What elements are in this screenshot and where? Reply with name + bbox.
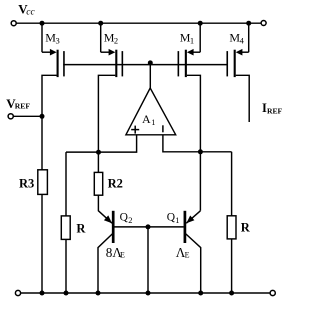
resistor R right body xyxy=(227,216,236,239)
svg-text:1: 1 xyxy=(175,215,179,225)
label R3 xyxy=(19,176,34,190)
transistor M3 xyxy=(42,23,64,116)
svg-text:R2: R2 xyxy=(108,176,123,190)
wire op-amp plus input xyxy=(66,135,137,152)
svg-text:REF: REF xyxy=(15,102,31,111)
Vcc terminal xyxy=(11,21,16,26)
wire op-amp output to gate node xyxy=(149,65,151,88)
label M4 xyxy=(229,30,244,45)
svg-text:1: 1 xyxy=(190,36,194,46)
op-amp A1 xyxy=(126,88,176,135)
transistor Q2 xyxy=(98,211,113,293)
junction dot left R ground xyxy=(64,291,69,296)
node right (M1 drain) dot xyxy=(198,149,203,154)
junction dot M2 source xyxy=(98,21,103,26)
resistor R2 body xyxy=(94,172,102,195)
wire right R bottom xyxy=(231,239,233,293)
ground terminal left xyxy=(15,290,20,295)
label A1 xyxy=(142,112,155,127)
Vcc terminal right xyxy=(261,21,266,26)
junction dot Q2 collector ground xyxy=(96,291,101,296)
resistor R3 body xyxy=(38,170,48,195)
svg-text:R3: R3 xyxy=(19,176,34,190)
label VREF xyxy=(6,96,30,111)
label M3 xyxy=(45,30,59,45)
svg-text:REF: REF xyxy=(267,107,283,116)
transistor M4 xyxy=(227,23,249,122)
label Q2 xyxy=(120,212,133,225)
Q2 emitter arrowhead xyxy=(104,215,112,223)
ground terminal right xyxy=(270,290,275,295)
wire left R bottom xyxy=(65,239,67,293)
VREF terminal xyxy=(8,114,13,119)
resistor R left body xyxy=(61,216,70,240)
wire left R top xyxy=(65,152,67,216)
label Q1 xyxy=(167,212,180,225)
label R left xyxy=(76,221,86,235)
svg-text:R: R xyxy=(76,221,86,235)
svg-text:A: A xyxy=(142,112,151,126)
wire R3 top (VREF column) xyxy=(41,116,43,170)
svg-text:cc: cc xyxy=(26,7,35,17)
transistor Q1 xyxy=(185,211,201,293)
wire right R top xyxy=(231,152,233,216)
svg-text:2: 2 xyxy=(128,215,132,225)
junction dot Q1 collector ground xyxy=(198,291,203,296)
wire Q1 Q2 common base xyxy=(114,226,184,228)
junction dot M4 source xyxy=(246,21,251,26)
label IREF xyxy=(262,101,283,116)
transistor M2 xyxy=(98,23,122,172)
wire R2 bottom to Q2 emitter xyxy=(98,195,112,223)
svg-text:E: E xyxy=(120,251,125,260)
label AE xyxy=(176,245,190,260)
svg-text:1: 1 xyxy=(151,117,155,127)
svg-text:2: 2 xyxy=(114,36,118,46)
label R2 xyxy=(108,176,123,190)
junction dot M3 source xyxy=(40,21,45,26)
wire base to ground xyxy=(147,227,149,293)
label M1 xyxy=(180,30,194,45)
node gate junction dot xyxy=(148,60,153,65)
transistor M1 xyxy=(178,23,200,211)
junction dot M1 source xyxy=(198,21,203,26)
node left (VBE+IR node) dot xyxy=(96,150,101,155)
junction dot right R ground xyxy=(229,291,234,296)
wire op-amp minus input xyxy=(163,135,232,152)
Vcc supply rail xyxy=(16,22,261,24)
wire R3 bottom xyxy=(41,194,43,293)
label R right xyxy=(241,221,251,235)
label M2 xyxy=(104,30,118,45)
common gate wire xyxy=(63,64,228,66)
junction dot base ground xyxy=(146,291,151,296)
svg-text:3: 3 xyxy=(56,36,60,46)
svg-text:4: 4 xyxy=(240,36,245,46)
Vcc label xyxy=(18,2,35,18)
node VREF junction dot xyxy=(40,114,45,119)
svg-text:E: E xyxy=(185,251,190,260)
junction dot R3 ground xyxy=(40,291,45,296)
label 8AE xyxy=(106,245,125,260)
svg-text:R: R xyxy=(241,221,251,235)
wire VREF xyxy=(13,115,42,117)
node base junction dot xyxy=(146,224,151,229)
ground rail xyxy=(21,292,270,294)
